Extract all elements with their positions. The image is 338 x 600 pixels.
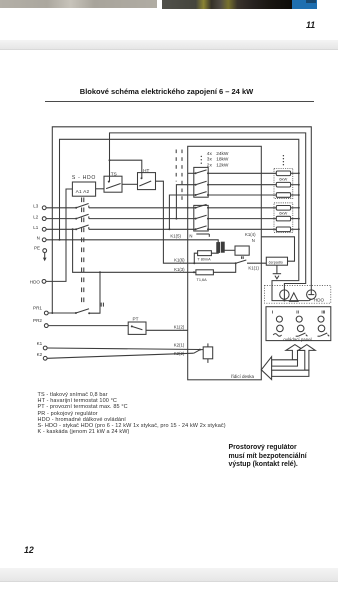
terminal PR1 bbox=[33, 306, 48, 315]
wire HDO lamp to common bbox=[309, 299, 312, 300]
svg-text:PR1: PR1 bbox=[33, 306, 42, 311]
junction pump lamp common bbox=[283, 299, 285, 301]
dots ellipsis left of labels bbox=[201, 156, 202, 164]
wire TS to HT bbox=[122, 183, 138, 185]
svg-text:L2: L2 bbox=[33, 214, 39, 219]
contact bank1 pole 2 bbox=[195, 181, 209, 185]
pin label K1(4) bbox=[245, 232, 256, 237]
pin label K1(2) bbox=[174, 324, 185, 329]
net label N at K1(5) bbox=[189, 233, 209, 238]
warning triangle bbox=[290, 293, 299, 302]
contact cascade K2 bbox=[194, 349, 201, 354]
resistor heating element E4 bbox=[208, 206, 300, 211]
hollow arrow head left bbox=[261, 357, 271, 380]
transformer TR coils bbox=[217, 242, 224, 252]
svg-text:6kW: 6kW bbox=[279, 211, 287, 216]
contact bank2 pole 3 bbox=[195, 226, 209, 230]
pump box cerpadlo bbox=[266, 257, 287, 265]
lamp stage 2 bbox=[296, 316, 302, 322]
switch glyph 2 bbox=[296, 333, 308, 336]
wire PR1 loop: up left side, across top, down right to HDO lamp bbox=[52, 127, 311, 313]
wire L1 tap down to K1(3) bbox=[72, 228, 196, 272]
wire contact to cascade coil bbox=[200, 349, 203, 351]
wire relay contact to pump bbox=[247, 262, 266, 264]
dots ellipsis above resistors bbox=[283, 155, 284, 165]
lamp stage 3 bbox=[318, 316, 324, 322]
svg-text:PR2: PR2 bbox=[33, 318, 42, 323]
svg-text:L1: L1 bbox=[33, 225, 39, 230]
wire HT output down to K1(6) bbox=[156, 181, 195, 263]
svg-text:K1(1): K1(1) bbox=[248, 266, 259, 271]
squiggle under knob 1 bbox=[273, 334, 281, 337]
lamp stage 1 bbox=[276, 316, 282, 322]
wire K1(6) to relay contact bbox=[194, 262, 235, 264]
svg-text:L3: L3 bbox=[33, 204, 39, 209]
resistor heating element E2 bbox=[208, 182, 300, 187]
pin label K1(5) bbox=[170, 233, 181, 238]
svg-text:24kW: 24kW bbox=[216, 151, 229, 157]
svg-text:T 80mA: T 80mA bbox=[197, 257, 211, 261]
terminal K1 bbox=[37, 341, 48, 350]
relay link mark bbox=[242, 256, 244, 259]
svg-text:T1,6A: T1,6A bbox=[197, 278, 208, 282]
terminal N bbox=[37, 236, 47, 242]
resistor heating element E6 bbox=[208, 227, 300, 232]
svg-text:K2(1): K2(1) bbox=[174, 342, 185, 347]
grey separator band top bbox=[0, 40, 338, 50]
label 6kW group1 bbox=[279, 176, 287, 181]
resistor heating element E3 bbox=[208, 193, 300, 198]
wire N to transformer bbox=[46, 240, 218, 243]
ground symbol PE earth arrow bbox=[43, 253, 47, 262]
junction TS top node bbox=[109, 159, 111, 161]
contact TS bbox=[106, 181, 121, 189]
wire A1 lead to HDO terminal bbox=[46, 189, 73, 281]
svg-text:čerpadlo: čerpadlo bbox=[269, 260, 283, 264]
relay coil box bbox=[235, 246, 249, 255]
terminal L3 bbox=[33, 204, 46, 210]
svg-text:4x: 4x bbox=[207, 151, 213, 157]
contact PT bbox=[131, 325, 143, 329]
wire PR2 to PT bbox=[48, 325, 128, 327]
label 3x 18kW bbox=[207, 157, 229, 163]
svg-text:3x: 3x bbox=[207, 157, 213, 163]
label stage I bbox=[272, 309, 274, 315]
riser L1 to bank1 bbox=[168, 195, 195, 230]
svg-text:S - HDO: S - HDO bbox=[72, 175, 96, 181]
junction PR1/left riser bbox=[51, 312, 53, 314]
resistor heating element E5 bbox=[208, 216, 300, 221]
fuse F1 T 80mA bbox=[194, 251, 211, 264]
junction K1(3)/PR1 riser bbox=[99, 271, 101, 273]
pin label K2(1) bbox=[174, 342, 185, 347]
svg-text:K1(2): K1(2) bbox=[174, 324, 185, 329]
svg-text:K1: K1 bbox=[37, 341, 43, 346]
wire PR1 contact up to K1(3) bbox=[89, 272, 100, 313]
pressure switch TS label bbox=[111, 171, 117, 176]
hollow arrow pipe lower bbox=[272, 370, 309, 376]
contact bank1 pole 1 bbox=[195, 170, 209, 174]
hollow arrow up 1 bbox=[286, 345, 304, 360]
cascade relay coil box bbox=[203, 343, 213, 363]
contact S-HDO pole L1 bbox=[46, 225, 89, 230]
pressure switch TS box bbox=[104, 176, 122, 192]
riser L2 to bank1 bbox=[175, 185, 195, 220]
svg-text:ovládací panel: ovládací panel bbox=[283, 337, 311, 342]
title rule bbox=[45, 101, 314, 102]
svg-text:TS: TS bbox=[111, 171, 117, 176]
wire L2 to heater bank bbox=[89, 218, 196, 220]
contact S-HDO pole L3 bbox=[46, 204, 89, 209]
contactor bank K1 box bbox=[194, 167, 208, 197]
fuse F2 T1,6A bbox=[196, 270, 214, 282]
label heating stages 4x 24kW bbox=[207, 151, 229, 157]
page number 11 bbox=[306, 20, 315, 30]
svg-text:HDO: HDO bbox=[30, 280, 41, 285]
operating thermostat PT box bbox=[128, 322, 146, 334]
contact bank2 pole 1 bbox=[195, 204, 209, 208]
indicator lamp pump bbox=[280, 290, 289, 299]
svg-text:PT: PT bbox=[133, 316, 139, 321]
net label N under K1(4) bbox=[252, 238, 255, 243]
wire A2 lead to TS bbox=[96, 188, 104, 190]
svg-text:řídicí deska: řídicí deska bbox=[231, 374, 255, 379]
photo strip right (dark boiler interior) bbox=[162, 0, 292, 9]
terminal PE bbox=[34, 245, 47, 252]
svg-text:12kW: 12kW bbox=[216, 162, 229, 168]
terminal HDO bbox=[30, 280, 46, 285]
page number 12 bbox=[24, 545, 34, 555]
svg-text:N: N bbox=[37, 236, 40, 241]
junction fuse F1 branch bbox=[193, 262, 195, 264]
contact bank1 pole 3 bbox=[195, 192, 209, 196]
terminal PR2 bbox=[33, 318, 48, 327]
control board (ridici deska) box bbox=[188, 146, 262, 379]
svg-text:K2: K2 bbox=[37, 352, 43, 357]
linkage mark at PR1 contact bbox=[101, 303, 103, 307]
grey separator band bottom bbox=[0, 568, 338, 582]
junction at fuse F2 input bbox=[193, 271, 195, 273]
svg-text:K1(3): K1(3) bbox=[174, 267, 185, 272]
switch glyph 3 bbox=[318, 333, 330, 336]
operating thermostat PT label bbox=[133, 316, 139, 321]
title bbox=[0, 87, 333, 96]
bold note paragraph bbox=[229, 444, 307, 470]
svg-text:I: I bbox=[272, 309, 274, 315]
safety thermostat HT box bbox=[138, 173, 156, 190]
pin label K2(2) bbox=[174, 351, 185, 356]
dashed group box heater 2 bbox=[274, 203, 293, 233]
svg-text:PE: PE bbox=[34, 245, 40, 250]
switch knob 1 bbox=[277, 325, 284, 332]
terminal L1 bbox=[33, 225, 46, 231]
svg-text:A1 A2: A1 A2 bbox=[76, 189, 90, 195]
svg-text:18kW: 18kW bbox=[216, 157, 229, 163]
terminal K2 bbox=[37, 352, 48, 360]
wire L1 to heater bank bbox=[89, 228, 196, 230]
ground symbol pump bbox=[273, 265, 281, 279]
control panel box bbox=[266, 307, 331, 341]
wire PT output K1(2) bbox=[146, 329, 188, 331]
photo strip left (grey table surface) bbox=[0, 0, 157, 8]
contactor bank K2 box bbox=[194, 205, 208, 231]
wire N loop: up, across, down right bus to lamp common bbox=[60, 139, 309, 300]
svg-text:K1(4): K1(4) bbox=[245, 232, 256, 237]
junction N/left riser bbox=[59, 239, 61, 241]
wire L3 to heater bank bbox=[89, 207, 196, 209]
wire TS node to HT top bbox=[110, 160, 142, 178]
resistor heating element E1 bbox=[208, 171, 300, 176]
svg-text:N: N bbox=[189, 233, 192, 238]
wire K1 terminal to board K2(1) bbox=[47, 348, 199, 350]
legend text block bbox=[38, 392, 108, 398]
svg-text:K1(5): K1(5) bbox=[170, 233, 181, 238]
contactor coil S-HDO label bbox=[72, 175, 96, 181]
wire PR1 terminal to contact bbox=[48, 312, 76, 314]
hollow arrow pipe upper bbox=[272, 360, 298, 366]
contact bank2 pole 2 bbox=[195, 215, 209, 219]
contact HT bbox=[139, 177, 151, 186]
svg-text:K1(6): K1(6) bbox=[174, 258, 185, 263]
label stage III bbox=[321, 309, 326, 315]
label HDO lamp bbox=[314, 298, 324, 303]
safety thermostat HT label bbox=[143, 168, 149, 173]
indicator lamp HDO bbox=[307, 290, 316, 299]
contact S-HDO aux on PR1 bbox=[75, 309, 90, 314]
svg-text:II: II bbox=[296, 309, 299, 315]
svg-text:N: N bbox=[252, 238, 255, 243]
linkage S-HDO dashed line bbox=[82, 198, 84, 307]
dashed group box heater 1 bbox=[274, 168, 293, 198]
contact relay pump bbox=[235, 260, 247, 264]
wire K2 terminal to board K2(2) bbox=[47, 353, 194, 358]
label 2x 12kW bbox=[207, 162, 229, 168]
svg-text:6kW: 6kW bbox=[279, 176, 287, 181]
linkage heater contactor dashed lines bbox=[176, 150, 182, 204]
label 6kW group2 bbox=[279, 211, 287, 216]
wire fuse F1 to transformer bbox=[211, 251, 218, 254]
label ridici deska bbox=[231, 374, 255, 379]
switch knob 3 bbox=[318, 325, 325, 332]
switch knob 2 bbox=[297, 325, 304, 332]
svg-text:HDO: HDO bbox=[314, 298, 324, 303]
wire fuse F2 output up to K1(6) node bbox=[213, 263, 235, 272]
terminal L2 bbox=[33, 214, 46, 220]
pin label K1(3) bbox=[174, 267, 185, 272]
label ovladaci panel bbox=[283, 337, 311, 342]
riser L3 via board edge to bank1 bbox=[187, 173, 196, 209]
dotted signal box bbox=[264, 286, 330, 304]
label stage II bbox=[296, 309, 299, 315]
pin label K1(1) bbox=[248, 266, 259, 271]
wire pump to K1(4) bbox=[261, 237, 294, 261]
contactor coil S-HDO box A1 A2 bbox=[72, 182, 95, 196]
contact S-HDO pole L2 bbox=[46, 214, 89, 219]
hollow arrow up 2 bbox=[298, 345, 315, 371]
photo strip blue connector bbox=[292, 0, 317, 9]
svg-text:III: III bbox=[321, 309, 326, 315]
wire transformer secondary to relay bbox=[224, 249, 235, 251]
pin label K1(6) bbox=[174, 258, 185, 263]
wire TS node to pump lamp across top bbox=[110, 133, 306, 290]
